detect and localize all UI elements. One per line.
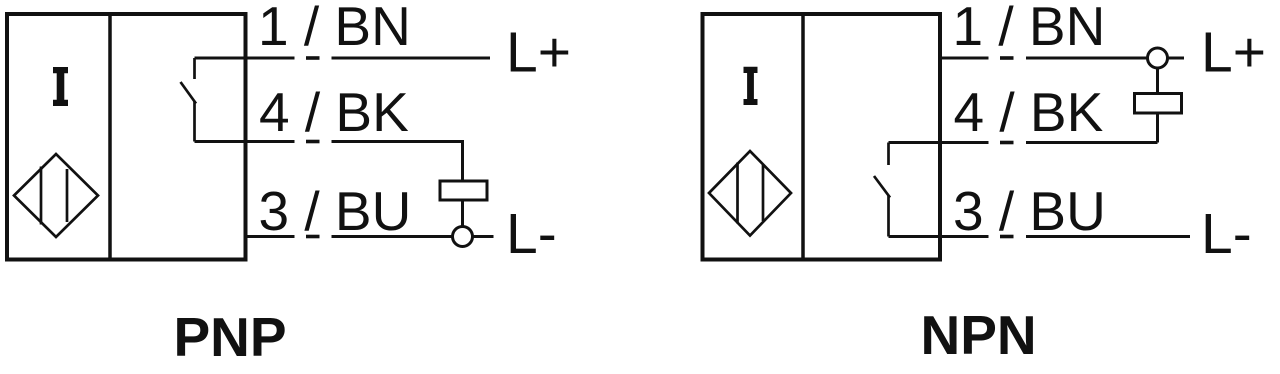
wire pin4 BK segment (box to break): [889, 141, 989, 144]
wire resistor to terminal: [461, 200, 464, 227]
svg-text:1 / BN: 1 / BN: [953, 0, 1106, 57]
svg-text:3 / BU: 3 / BU: [953, 180, 1106, 242]
proximity sensor diamond symbol: [14, 154, 98, 237]
proximity sensor diamond symbol: [709, 151, 791, 236]
diamond chord left: [736, 163, 739, 224]
wire pin1 BN segment (box to break): [940, 57, 989, 60]
wire pin4 BK segment to load riser: [1026, 141, 1158, 144]
wire terminal to L-: [473, 235, 494, 238]
diamond chord left: [40, 167, 43, 225]
load resistor R2: [1135, 94, 1182, 114]
svg-text:L+: L+: [1201, 21, 1266, 85]
wire break dash pin4: [306, 140, 320, 144]
wire pin1 BN segment (box to break): [195, 57, 295, 60]
box internal divider: [108, 14, 112, 260]
switch S1 lower lead: [193, 101, 196, 142]
wire break dash pin1: [1000, 56, 1014, 60]
sensor body box (NPN): [703, 14, 941, 260]
wire pin1 BN segment to L+: [332, 57, 491, 60]
wire break dash pin3: [306, 235, 320, 239]
switch S2 lower lead: [887, 195, 890, 237]
letter I (inductive sensor): [744, 67, 758, 105]
svg-text:L+: L+: [506, 21, 571, 85]
sensor body box (PNP): [7, 14, 246, 260]
letter I (inductive sensor): [53, 67, 68, 106]
wire terminal down to load resistor: [1156, 68, 1159, 94]
wire load resistor down to BK corner: [1156, 113, 1159, 143]
wire break dash pin3: [1000, 235, 1014, 239]
svg-text:1 / BN: 1 / BN: [258, 0, 411, 57]
switch S2 fixed contact stub: [887, 143, 890, 166]
svg-text:NPN: NPN: [921, 304, 1037, 366]
wire pin4 BK segment (box to break): [195, 140, 295, 143]
wire pin3 BU segment (box to break): [889, 235, 989, 238]
svg-text:L-: L-: [506, 202, 557, 266]
terminal circle at L-: [453, 227, 473, 247]
svg-text:4 / BK: 4 / BK: [954, 81, 1104, 143]
svg-text:4 / BK: 4 / BK: [259, 81, 409, 143]
wire pin4 BK segment with corner down to load: [332, 142, 463, 182]
wire pin3 BU segment to terminal: [332, 235, 453, 238]
switch S1 blade: [181, 82, 197, 104]
load resistor R1: [440, 181, 487, 200]
wire pin3 BU segment to L-: [1026, 235, 1190, 238]
wire pin3 BU segment (box to break): [246, 235, 295, 238]
switch S2 blade: [874, 176, 890, 198]
diamond chord right: [66, 169, 69, 222]
wire break dash pin4: [1000, 141, 1014, 145]
svg-text:L-: L-: [1201, 202, 1252, 266]
terminal circle at L+: [1148, 48, 1168, 68]
box internal divider: [801, 14, 805, 260]
svg-text:PNP: PNP: [174, 306, 287, 368]
wire break dash pin1: [306, 56, 320, 60]
wire terminal to L+: [1169, 57, 1185, 60]
svg-text:3 / BU: 3 / BU: [259, 180, 412, 242]
wire pin1 BN segment to terminal: [1026, 57, 1148, 60]
switch S1 fixed contact stub: [193, 58, 196, 79]
diamond chord right: [762, 165, 765, 221]
